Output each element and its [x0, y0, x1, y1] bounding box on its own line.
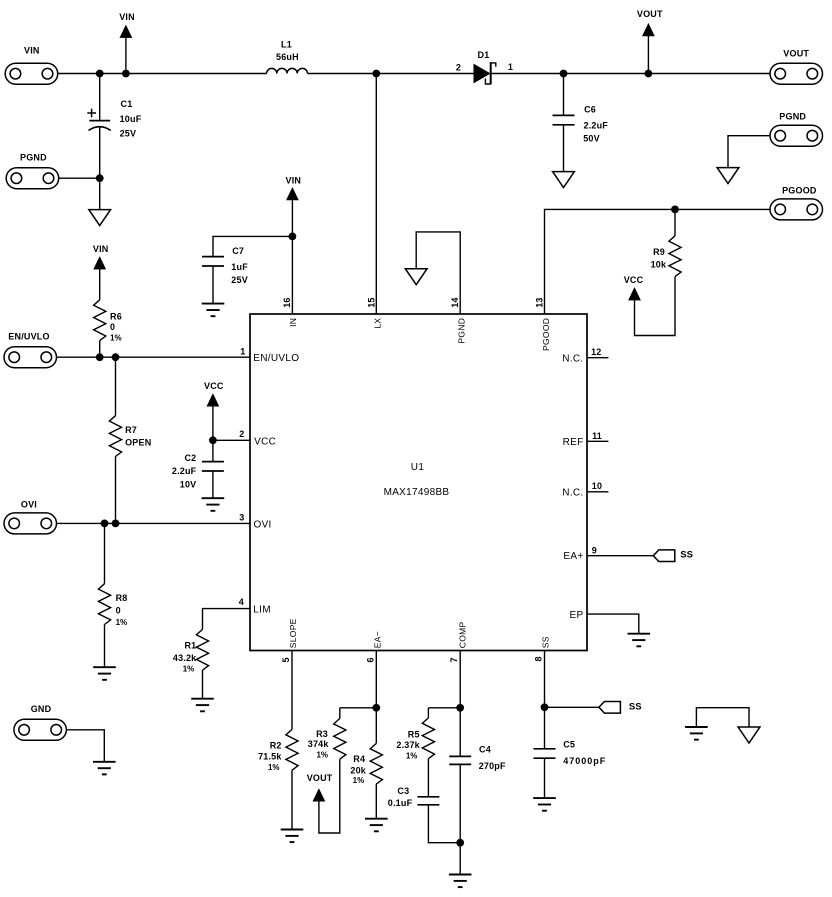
svg-text:71.5k: 71.5k [258, 751, 282, 761]
svg-text:2.2uF: 2.2uF [172, 466, 197, 476]
svg-text:PGOOD: PGOOD [541, 318, 551, 351]
svg-text:LX: LX [373, 318, 383, 329]
svg-text:VIN: VIN [93, 244, 109, 254]
svg-text:1: 1 [508, 62, 513, 72]
svg-text:7: 7 [449, 657, 459, 662]
svg-text:0: 0 [110, 322, 115, 332]
svg-text:13: 13 [534, 297, 544, 307]
svg-text:R4: R4 [353, 754, 365, 764]
svg-text:2: 2 [239, 429, 244, 439]
svg-text:2.2uF: 2.2uF [584, 121, 609, 131]
svg-text:VCC: VCC [254, 436, 276, 447]
svg-text:C6: C6 [584, 104, 596, 114]
svg-text:270pF: 270pF [479, 761, 506, 771]
svg-text:D1: D1 [478, 50, 490, 60]
svg-text:6: 6 [365, 657, 375, 662]
svg-text:VIN: VIN [24, 46, 40, 56]
svg-text:C5: C5 [563, 740, 575, 750]
svg-text:EP: EP [570, 610, 584, 621]
svg-text:VOUT: VOUT [783, 48, 809, 58]
svg-text:16: 16 [282, 297, 292, 307]
svg-text:L1: L1 [281, 40, 292, 50]
svg-text:R7: R7 [125, 425, 137, 435]
svg-text:SS: SS [680, 549, 693, 560]
svg-text:EA−: EA− [372, 631, 382, 648]
svg-text:R9: R9 [653, 247, 665, 257]
svg-text:C4: C4 [479, 745, 491, 755]
svg-text:C3: C3 [397, 786, 409, 796]
svg-text:OVI: OVI [21, 499, 37, 509]
svg-text:PGND: PGND [457, 318, 467, 344]
svg-text:14: 14 [450, 297, 460, 307]
svg-text:VIN: VIN [286, 175, 302, 185]
svg-text:PGOOD: PGOOD [782, 186, 817, 196]
svg-text:N.C.: N.C. [562, 487, 583, 498]
svg-text:1%: 1% [353, 776, 365, 785]
svg-text:C1: C1 [121, 99, 133, 109]
svg-text:1%: 1% [183, 664, 195, 673]
svg-text:VCC: VCC [624, 275, 644, 285]
svg-text:8: 8 [534, 656, 544, 661]
svg-text:10V: 10V [180, 479, 197, 489]
svg-text:REF: REF [563, 437, 584, 448]
svg-text:LIM: LIM [253, 605, 271, 616]
svg-text:1%: 1% [268, 763, 280, 772]
svg-text:50V: 50V [583, 134, 600, 144]
svg-text:0: 0 [116, 605, 121, 615]
svg-text:R1: R1 [184, 641, 196, 651]
svg-text:OVI: OVI [254, 519, 272, 530]
svg-text:20k: 20k [350, 765, 366, 775]
svg-text:2: 2 [456, 63, 461, 73]
svg-text:9: 9 [592, 545, 597, 555]
svg-text:3: 3 [239, 513, 244, 523]
svg-text:4: 4 [239, 597, 244, 607]
svg-text:EN/UVLO: EN/UVLO [253, 353, 299, 364]
svg-text:OPEN: OPEN [125, 437, 151, 447]
svg-text:56uH: 56uH [276, 52, 299, 62]
svg-text:IN: IN [288, 318, 298, 327]
svg-text:25V: 25V [120, 129, 137, 139]
svg-text:15: 15 [366, 297, 376, 307]
svg-text:VCC: VCC [204, 381, 224, 391]
svg-text:SS: SS [541, 636, 551, 648]
svg-text:12: 12 [591, 347, 601, 357]
svg-text:1%: 1% [316, 751, 328, 760]
svg-text:SS: SS [629, 702, 642, 713]
svg-text:0.1uF: 0.1uF [388, 798, 413, 808]
svg-text:1: 1 [240, 347, 245, 357]
svg-text:U1: U1 [411, 462, 425, 473]
svg-text:R6: R6 [110, 311, 122, 321]
svg-text:1%: 1% [110, 334, 122, 343]
svg-text:C7: C7 [232, 246, 244, 256]
svg-text:MAX17498BB: MAX17498BB [384, 487, 450, 498]
svg-text:R8: R8 [116, 593, 128, 603]
svg-text:2.37k: 2.37k [396, 740, 420, 750]
svg-text:C2: C2 [184, 453, 196, 463]
svg-text:EN/UVLO: EN/UVLO [8, 331, 49, 341]
svg-text:GND: GND [31, 704, 52, 714]
svg-text:VOUT: VOUT [307, 773, 333, 783]
svg-text:R2: R2 [270, 740, 282, 750]
svg-text:COMP: COMP [457, 621, 467, 648]
svg-text:25V: 25V [231, 275, 248, 285]
svg-text:EA+: EA+ [563, 551, 583, 562]
svg-text:1%: 1% [406, 752, 418, 761]
svg-text:R3: R3 [316, 729, 328, 739]
svg-text:N.C.: N.C. [562, 353, 583, 364]
svg-text:1%: 1% [116, 618, 128, 627]
svg-text:10uF: 10uF [120, 114, 142, 124]
svg-text:1uF: 1uF [231, 262, 248, 272]
svg-text:47000pF: 47000pF [563, 756, 606, 766]
svg-text:374k: 374k [308, 739, 330, 749]
svg-text:43.2k: 43.2k [173, 653, 197, 663]
svg-text:PGND: PGND [779, 112, 806, 122]
svg-text:5: 5 [281, 657, 291, 662]
svg-text:SLOPE: SLOPE [288, 618, 298, 648]
svg-text:10: 10 [592, 481, 602, 491]
svg-text:PGND: PGND [20, 152, 47, 162]
svg-text:VIN: VIN [119, 12, 135, 22]
svg-text:R5: R5 [408, 729, 420, 739]
svg-text:VOUT: VOUT [637, 9, 663, 19]
svg-text:11: 11 [592, 431, 602, 441]
svg-text:10k: 10k [651, 260, 667, 270]
